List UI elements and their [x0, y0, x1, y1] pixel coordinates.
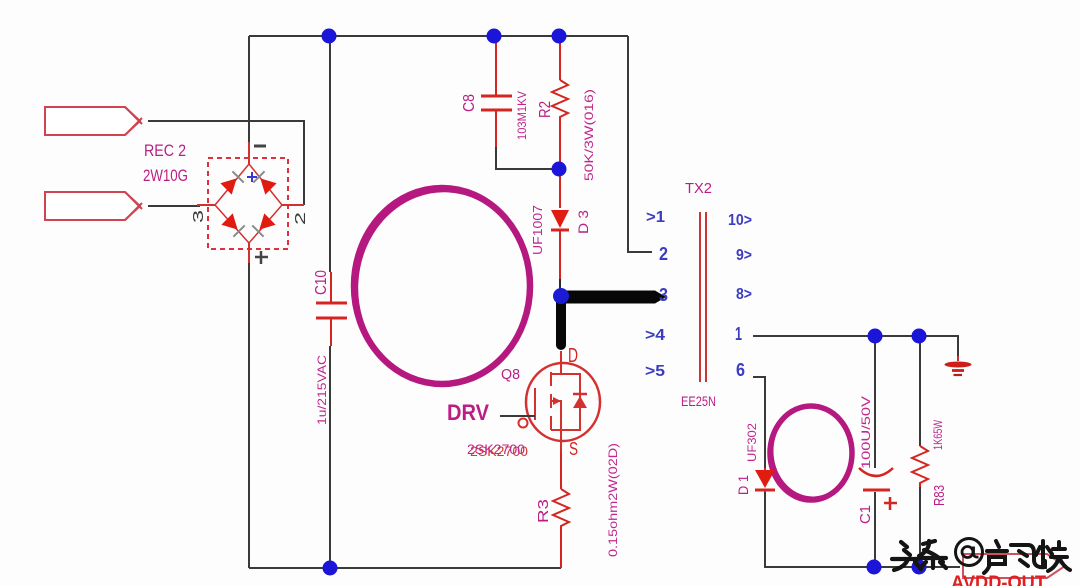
- svg-text:1: 1: [735, 324, 742, 344]
- bridge diamond: [215, 164, 282, 243]
- connector P2 AC input bottom: [45, 192, 140, 220]
- bridge diode bottom-left: [221, 213, 244, 236]
- svg-text:2W10G: 2W10G: [143, 166, 188, 185]
- svg-text:>4: >4: [645, 327, 665, 344]
- svg-text:D 3: D 3: [575, 210, 591, 234]
- svg-text:Q8: Q8: [501, 366, 520, 383]
- mosfet Q8 circle: [526, 363, 600, 441]
- svg-text:EE25N: EE25N: [681, 393, 716, 409]
- bridge pin1 minus mark: [254, 145, 266, 148]
- svg-text:2: 2: [292, 212, 309, 225]
- svg-text:UF1007: UF1007: [531, 205, 545, 255]
- C1 plus sign: [884, 497, 897, 510]
- thick black trace to TX2 pin3: [561, 291, 655, 304]
- big magenta circle annotation: [354, 188, 530, 384]
- diode D1 UF302: [755, 470, 775, 488]
- svg-text:100U/50V: 100U/50V: [859, 396, 873, 469]
- svg-text:REC 2: REC 2: [144, 141, 186, 160]
- watermark kuai: [1036, 541, 1070, 571]
- svg-text:AVDD-OUT: AVDD-OUT: [951, 573, 1046, 586]
- svg-text:8>: 8>: [736, 286, 752, 303]
- watermark fei: [1011, 545, 1045, 567]
- bridge polarity plus blue: [247, 172, 257, 182]
- resistor R83: [912, 446, 928, 487]
- svg-text:D 1: D 1: [735, 475, 751, 495]
- gate curl doodle: [519, 419, 528, 428]
- small magenta circle annotation: [770, 406, 852, 500]
- connector AVDD-OUT: [963, 554, 1065, 578]
- bridge diode top-right: [253, 171, 276, 194]
- svg-text:103M1KV: 103M1KV: [515, 91, 529, 140]
- svg-text:DRV: DRV: [447, 400, 489, 425]
- svg-text:D: D: [568, 345, 578, 367]
- bridge diode bottom-right: [252, 213, 275, 236]
- capacitor C10: [330, 272, 332, 346]
- svg-text:C1: C1: [857, 505, 874, 524]
- wire TX2 pin1 secondary to ground: [753, 336, 958, 359]
- bridge diode top-left: [220, 171, 243, 194]
- svg-text:R2: R2: [537, 101, 554, 118]
- svg-text:1u/215VAC: 1u/215VAC: [315, 355, 329, 425]
- mosfet channel arrow: [553, 397, 561, 405]
- mosfet gate wire: [500, 415, 535, 417]
- watermark tiao: [919, 541, 946, 568]
- node junction dot C8/R2: [552, 162, 567, 177]
- svg-text:C10: C10: [313, 270, 330, 295]
- svg-text:R83: R83: [931, 485, 948, 506]
- diode D3 UF1007: [551, 210, 569, 228]
- bridge rectifier REC2 dashed box: [208, 158, 288, 249]
- capacitor C8: [495, 36, 497, 147]
- wire C8 bottom to node: [496, 147, 554, 169]
- node junction dots secondary: [868, 329, 883, 344]
- resistor R2: [559, 36, 561, 208]
- svg-text:10>: 10>: [728, 212, 752, 229]
- wire R83 branch: [919, 336, 921, 567]
- node junction dot bottom bus: [323, 561, 338, 576]
- resistor R3: [560, 452, 562, 568]
- mosfet body diode: [573, 396, 587, 408]
- node junction dots top bus: [322, 29, 337, 44]
- svg-text:C8: C8: [461, 94, 478, 112]
- svg-text:50K/3W(016): 50K/3W(016): [582, 89, 596, 181]
- svg-text:>1: >1: [646, 209, 665, 226]
- bridge pin leads: [197, 142, 304, 263]
- svg-text:6: 6: [736, 360, 745, 380]
- wire bottom bus: [249, 567, 561, 569]
- svg-text:3: 3: [659, 285, 668, 305]
- transformer TX2 core: [700, 212, 706, 382]
- svg-text:9>: 9>: [736, 247, 752, 264]
- ground symbol: [957, 356, 959, 361]
- wire AC input 1 to bridge pin2: [148, 121, 304, 205]
- wire top bus: [249, 35, 628, 37]
- svg-text:R3: R3: [535, 499, 552, 523]
- watermark toutiao tou: [892, 542, 921, 570]
- svg-text:0.15ohm2W(02D): 0.15ohm2W(02D): [606, 443, 620, 557]
- watermark at sign: [956, 539, 983, 566]
- bridge pin4 plus mark: [255, 251, 268, 264]
- svg-text:TX2: TX2: [685, 180, 712, 197]
- svg-text:2: 2: [659, 244, 668, 264]
- wire bridge pin4 down to bottom bus: [248, 262, 250, 568]
- wire right vertical to TX2 pin2: [628, 36, 652, 252]
- mosfet Q8 internals: [535, 351, 580, 452]
- wire C1 branch: [874, 336, 876, 567]
- capacitor C1: [859, 468, 893, 476]
- wire TX2 pin6 down left rail: [753, 377, 960, 567]
- connector P1 AC input top: [45, 107, 140, 135]
- svg-text:S: S: [569, 439, 578, 459]
- svg-text:>5: >5: [645, 363, 665, 380]
- wire AC input 2 to bridge pin3: [148, 205, 200, 207]
- wire left vertical to bridge pin1: [248, 36, 250, 142]
- watermark lu: [984, 541, 1007, 573]
- node junction dot drain corner: [553, 288, 569, 304]
- svg-text:UF302: UF302: [745, 423, 759, 462]
- wire C10 branch: [329, 36, 331, 568]
- svg-text:2SK2700: 2SK2700: [467, 441, 525, 457]
- svg-text:1K65W: 1K65W: [933, 420, 945, 450]
- svg-text:3: 3: [190, 210, 207, 223]
